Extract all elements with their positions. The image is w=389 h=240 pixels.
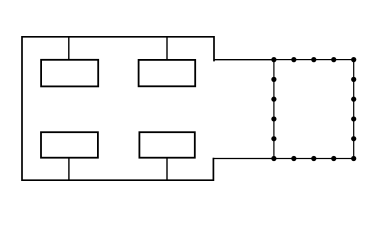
module block R1: [41, 60, 98, 87]
module block R4: [139, 132, 194, 158]
module block R3: [41, 132, 98, 158]
pad dots (left edge): [271, 77, 276, 142]
wire (connector to pad ring, top): [214, 59, 274, 61]
pad ring frame: [274, 60, 354, 159]
wire (top net to R2): [166, 37, 168, 60]
wire (bottom net to R4): [166, 158, 168, 181]
outline (stepped chip body boundary): [22, 37, 214, 180]
pad dots (bottom edge): [271, 156, 356, 161]
wire (top net to R1): [68, 37, 70, 60]
wire (connector to pad ring, bottom): [213, 158, 274, 160]
pad dots (top edge): [271, 57, 356, 62]
wire (bottom net to R3): [68, 158, 70, 181]
module block R2: [139, 60, 196, 86]
pad dots (right edge): [351, 77, 356, 142]
